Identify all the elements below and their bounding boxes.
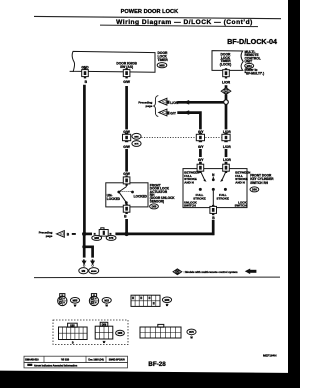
svg-text:SWITCH: SWITCH (235, 204, 247, 208)
wire from preceding page L/OR (177, 101, 223, 104)
svg-text:M55: M55 (73, 299, 78, 302)
footnote arrow (245, 269, 257, 275)
label MULTI-REMOTE CONTROL UNIT (245, 50, 261, 64)
dashed group box (53, 320, 128, 345)
ID oval M55 with color W (70, 298, 79, 308)
svg-text:SENSOR): SENSOR) (150, 199, 164, 203)
connector face: grid D56 (95, 322, 113, 344)
svg-text:M105: M105 (91, 271, 97, 273)
svg-text:L/OR: L/OR (223, 158, 231, 162)
footnote diamond M (173, 269, 182, 275)
ground drop wire (83, 234, 86, 247)
svg-text:(LOCK): (LOCK) (220, 63, 232, 67)
svg-text:Dec 1993 (34): Dec 1993 (34) (88, 359, 103, 362)
svg-text:D55: D55 (152, 205, 157, 209)
junction node (open circle) (224, 100, 229, 105)
label FRONT DOOR KEY CYLINDER SWITCH RH (250, 174, 274, 185)
svg-text:MEF164H: MEF164H (263, 354, 277, 358)
wire diamond to junction (225, 95, 228, 100)
svg-text:POWER DOOR LOCK: POWER DOOR LOCK (121, 9, 179, 15)
ground symbol right (89, 261, 99, 274)
direction arrow on L/OR wire (183, 100, 189, 105)
note refer to BF-MULTI (245, 68, 265, 75)
svg-text:G/Y: G/Y (198, 158, 204, 162)
wire B from key cyl down and left (212, 220, 215, 235)
label BETWEEN FULL STROKE AND N right (235, 170, 250, 184)
svg-text:G/W: G/W (123, 145, 130, 149)
svg-text:LOCKED: LOCKED (107, 197, 121, 201)
tiny B labels at grounds (83, 260, 94, 262)
connector ID oval D56 (250, 187, 259, 192)
page connector arrow L/OR (159, 98, 179, 105)
junction B2 (124, 232, 128, 236)
switch arms key cylinder (201, 172, 226, 182)
svg-text:G/W: G/W (123, 80, 131, 84)
page connector arrow G/Y (159, 109, 177, 116)
preceding page label (138, 100, 152, 107)
connector face: grid D55 (59, 323, 88, 344)
connector ID oval M13 (245, 63, 254, 68)
svg-text:: Models with multi-remote con: : Models with multi-remote control syste… (184, 270, 239, 274)
connector ID oval D55 (150, 204, 159, 209)
svg-text:SWITCH RH: SWITCH RH (250, 181, 269, 185)
svg-text:G/Y: G/Y (198, 145, 204, 149)
junction B1 (82, 232, 86, 236)
harness boundary dashed line (141, 137, 195, 139)
svg-text:Arrow indicates Amended inform: Arrow indicates Amended information (34, 364, 78, 367)
ID oval in dashed box (116, 330, 125, 335)
svg-text:TIMER: TIMER (158, 58, 169, 62)
svg-text:L/OR: L/OR (222, 80, 231, 84)
svg-text:BF-D/LOCK-04: BF-D/LOCK-04 (227, 37, 277, 46)
junction on ground drop (82, 245, 86, 249)
header rule 2 (100, 25, 258, 27)
svg-text:AND N: AND N (184, 181, 194, 185)
inline connector on ground bus (94, 228, 112, 236)
right page-edge black strip (288, 0, 300, 388)
svg-text:M13: M13 (104, 299, 109, 302)
connector face: round M55 (58, 294, 67, 306)
inline connector ID ovals (92, 235, 116, 240)
wire left B from GND down (83, 85, 86, 234)
wire G/Y horizontal then down (177, 113, 200, 130)
ID oval B75 with color W (187, 329, 196, 340)
wire G/W from U1 down (125, 86, 128, 129)
svg-text:’95 S20: ’95 S20 (61, 359, 70, 362)
svg-text:B75: B75 (109, 237, 114, 240)
ID oval M30 with color W (162, 297, 171, 307)
ground bus wire (84, 233, 92, 236)
svg-text:page: page (46, 234, 53, 238)
wire U2 to diamond (225, 85, 228, 88)
svg-text:M9: M9 (82, 269, 86, 273)
svg-text:D56: D56 (252, 188, 257, 192)
label FULL STROKE right (217, 193, 230, 200)
brace (154, 96, 159, 117)
ground branch wires (83, 247, 86, 258)
wire G/Y boundary to key cyl box (199, 149, 202, 157)
svg-text:L/OR: L/OR (223, 145, 231, 149)
svg-text:Wiring Diagram — D/LOCK — (Con: Wiring Diagram — D/LOCK — (Cont’d) (116, 19, 253, 26)
bottom pin connector key cyl (210, 205, 217, 215)
connector face: grid M30 (131, 295, 160, 306)
footer table (24, 356, 128, 368)
ground symbol left (79, 261, 88, 274)
label UN-LOCKED (107, 194, 121, 201)
connector ID oval M55 (157, 63, 167, 68)
svg-text:M55: M55 (159, 63, 165, 67)
component box: door lock timer (lock) U2 (212, 51, 243, 71)
bottom pin connector of sensor (123, 204, 130, 214)
label FRONT DOOR LOCK ACTUATOR RH (DOOR UNLOCK SENSOR) (150, 183, 176, 203)
page connector arrow B (57, 231, 76, 238)
switch: unlock sensor (117, 184, 134, 207)
label DOOR LOCK TIMER (158, 51, 169, 62)
option diamond symbol M (221, 88, 231, 95)
component box: door lock timer U1 (72, 51, 155, 72)
pin connector GND (82, 68, 89, 78)
component box: front door lock actuator RH (door unlock sensor) (106, 183, 148, 207)
svg-text:SWITCH: SWITCH (184, 204, 196, 208)
pin connector of U2 (223, 68, 230, 78)
svg-text:page: page (146, 104, 153, 108)
svg-text:B75: B75 (189, 331, 194, 334)
header rule 1 (34, 16, 281, 18)
contact dots (199, 188, 227, 191)
svg-text:D55: D55 (118, 332, 123, 335)
connector face: grid B75 (140, 324, 181, 338)
preceding page label bottom (39, 231, 53, 238)
label LOCK SWITCH (235, 200, 248, 207)
top pin connector L/OR of key cyl (223, 163, 230, 173)
svg-text:BMA4B-510: BMA4B-510 (25, 359, 39, 362)
boundary connector L/OR (222, 133, 230, 142)
label UNLOCK SWITCH (184, 200, 198, 207)
ID oval M13 with color W (102, 298, 111, 308)
bottom page-edge black bar (0, 371, 300, 388)
svg-text:LOCKED: LOCKED (134, 195, 148, 199)
diagram bottom rule (34, 276, 280, 279)
wire G/W boundary to sensor box (125, 149, 128, 172)
top pin connector G/Y of key cyl (197, 163, 204, 173)
direction arrow on G/Y wire (183, 110, 189, 115)
svg-text:AND N: AND N (235, 181, 245, 185)
component box: front door key cylinder switch RH (183, 169, 247, 208)
connector face: round M13 (89, 294, 98, 306)
label BETWEEN FULL STROKE AND N left (184, 170, 199, 184)
svg-text:SM4E-0P10U0: SM4E-0P10U0 (109, 359, 126, 362)
svg-text:B: B (72, 341, 74, 344)
harness connector ID ovals (132, 133, 141, 146)
pin connector DOOR KNOB SW (123, 68, 130, 78)
svg-text:“BF-MULTI”.): “BF-MULTI”.) (245, 71, 265, 75)
boundary connector G/Y (196, 133, 204, 142)
svg-text:L/OR: L/OR (170, 101, 178, 105)
wire L/OR from junction down (225, 104, 228, 129)
svg-text:G/Y: G/Y (170, 112, 176, 116)
svg-text:BF-28: BF-28 (148, 361, 166, 368)
pin label DOOR KNOB SW (AS) (116, 62, 137, 70)
svg-text:M30: M30 (165, 299, 170, 302)
boundary connector G/W (123, 133, 131, 142)
svg-text:STROKE: STROKE (217, 197, 230, 201)
label FULL STROKE left (193, 193, 206, 200)
top pin connector of sensor (123, 175, 130, 185)
wire L/OR boundary to key cyl box (225, 149, 228, 157)
wire B from sensor down (125, 219, 128, 234)
svg-text:M55: M55 (94, 237, 99, 240)
common wire to bottom pin (212, 191, 214, 208)
